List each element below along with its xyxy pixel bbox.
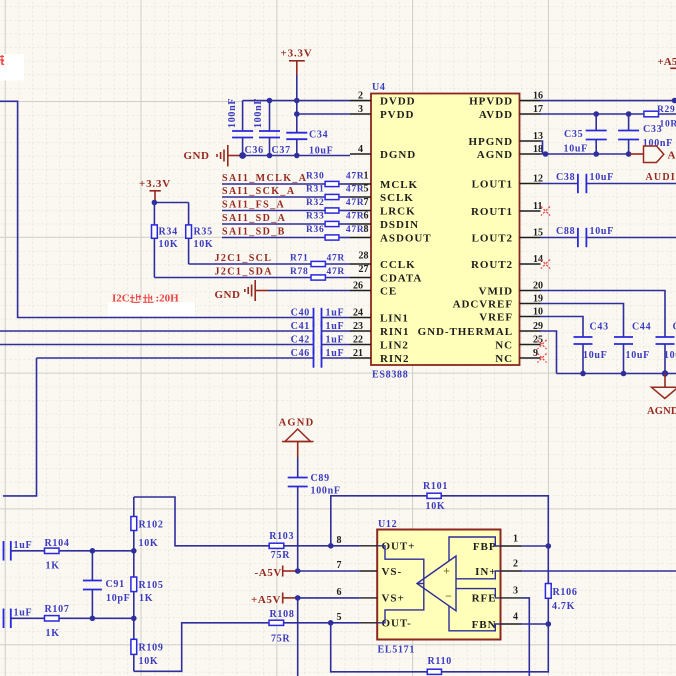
- svg-text:1K: 1K: [139, 593, 153, 604]
- svg-text:C34: C34: [309, 129, 328, 140]
- resistor R110: [331, 623, 549, 675]
- svg-text:R110: R110: [428, 656, 452, 667]
- svg-text:EL5171: EL5171: [378, 644, 416, 655]
- svg-text:1: 1: [513, 534, 518, 545]
- svg-text:R105: R105: [139, 580, 164, 591]
- svg-text:75R: 75R: [271, 633, 290, 644]
- svg-text:C4: C4: [673, 322, 676, 333]
- pin 18 AGND: [477, 144, 543, 161]
- svg-text:MCLK: MCLK: [380, 179, 418, 191]
- svg-text:1uF: 1uF: [326, 321, 345, 332]
- svg-text:47R: 47R: [327, 254, 345, 264]
- pin 23 RIN1: [350, 321, 409, 338]
- svg-text:SAI1_SD_A: SAI1_SD_A: [222, 213, 286, 224]
- svg-text:C42: C42: [291, 335, 310, 346]
- wire to AGND port: [630, 153, 644, 155]
- svg-text:SAI1_MCLK_A: SAI1_MCLK_A: [222, 173, 307, 184]
- svg-text:RFE: RFE: [472, 593, 497, 605]
- svg-text:C41: C41: [291, 321, 310, 332]
- svg-text:+3.3V: +3.3V: [139, 178, 171, 190]
- pin 20 VMID: [479, 280, 543, 297]
- svg-text:R106: R106: [553, 587, 578, 598]
- svg-text:20: 20: [533, 280, 543, 291]
- svg-text:22: 22: [353, 334, 363, 345]
- svg-text:U12: U12: [378, 519, 397, 530]
- resistor R107 1K: [45, 604, 134, 639]
- pin 19 ADCVREF: [453, 293, 543, 310]
- pin 13 HPGND: [469, 131, 543, 148]
- power port +A5V (clipped): [658, 56, 676, 69]
- svg-text:1K: 1K: [46, 628, 60, 639]
- svg-text:R107: R107: [45, 604, 70, 615]
- svg-text:LRCK: LRCK: [380, 205, 416, 217]
- svg-text:10K: 10K: [194, 239, 214, 250]
- pin 1 MCLK: [350, 171, 418, 191]
- svg-text:17: 17: [533, 104, 543, 115]
- svg-text:R109: R109: [139, 642, 164, 653]
- svg-text:HPGND: HPGND: [469, 136, 513, 148]
- svg-text:LIN1: LIN1: [380, 312, 409, 324]
- svg-text:R103: R103: [269, 531, 294, 542]
- resistor R102 10K: [131, 497, 164, 551]
- svg-text:VMID: VMID: [479, 285, 513, 297]
- svg-text:10K: 10K: [426, 501, 446, 512]
- capacitor C34: [286, 129, 333, 156]
- pin 26 CE: [350, 280, 397, 297]
- wire: [222, 196, 350, 198]
- svg-text:ES8388: ES8388: [372, 370, 408, 381]
- wire VS+: [298, 597, 360, 599]
- pin 29 GND-THERMAL: [418, 321, 543, 338]
- junction: [593, 111, 631, 117]
- svg-text::20H: :20H: [156, 293, 180, 305]
- capacitor C36: [227, 98, 264, 156]
- pin 4 FBN: [472, 612, 522, 631]
- svg-text:SCLK: SCLK: [380, 192, 414, 204]
- svg-text:VREF: VREF: [479, 311, 513, 323]
- svg-text:C33: C33: [643, 124, 662, 135]
- wire: [222, 223, 350, 225]
- U12 internal wiring: [377, 537, 500, 631]
- svg-text:+: +: [443, 564, 450, 578]
- svg-text:10uF: 10uF: [664, 350, 676, 361]
- svg-text:1uF: 1uF: [14, 540, 33, 551]
- pin 7 VS-: [337, 560, 403, 578]
- svg-text:13: 13: [533, 131, 543, 142]
- capacitor C41 1uF: [291, 321, 350, 341]
- pin 6 DSDIN: [350, 211, 419, 231]
- svg-text:R108: R108: [270, 609, 295, 620]
- wire: [222, 183, 350, 185]
- svg-text:10pF: 10pF: [106, 593, 130, 604]
- pin 5 SCLK: [350, 184, 414, 204]
- power port +A5V: [251, 593, 298, 606]
- svg-text:R34: R34: [159, 227, 178, 238]
- svg-text:47R: 47R: [327, 267, 345, 277]
- pin 2 IN+: [475, 559, 521, 578]
- capacitor C37: [253, 98, 291, 156]
- svg-text:1uF: 1uF: [14, 608, 33, 619]
- resistor R106 4.7K: [545, 546, 577, 624]
- svg-text:RIN1: RIN1: [380, 326, 409, 338]
- net label J2C1_SDA: [215, 267, 273, 278]
- svg-text:15: 15: [533, 227, 543, 238]
- capacitor C43 10uF: [574, 322, 609, 374]
- svg-text:C88: C88: [556, 226, 575, 237]
- svg-text:R35: R35: [194, 227, 213, 238]
- wire: [154, 202, 188, 204]
- wire LOUT2: [541, 237, 578, 239]
- junction: [90, 616, 137, 622]
- resistor R33 47R: [306, 212, 364, 227]
- svg-text:C89: C89: [311, 473, 330, 484]
- svg-text:12: 12: [533, 173, 543, 184]
- svg-text:AGND: AGND: [647, 406, 676, 417]
- svg-text:DSDIN: DSDIN: [380, 219, 419, 231]
- svg-text:GND: GND: [184, 150, 210, 162]
- svg-text:J2C1_SCL: J2C1_SCL: [215, 253, 273, 264]
- capacitor C89 100nF: [288, 473, 341, 571]
- svg-text:16: 16: [533, 90, 543, 101]
- svg-text:NC: NC: [495, 339, 513, 351]
- svg-text:C43: C43: [590, 322, 609, 333]
- svg-text:C35: C35: [564, 129, 583, 140]
- junction: [328, 543, 334, 549]
- svg-text:1uF: 1uF: [326, 308, 345, 319]
- svg-text:CE: CE: [380, 285, 397, 297]
- pin 22 LIN2: [350, 334, 409, 351]
- wire PVDD: [297, 113, 350, 115]
- ground AGND (down): [647, 374, 676, 418]
- svg-text:LOUT1: LOUT1: [472, 178, 513, 190]
- resistor R32 47R: [306, 198, 364, 213]
- junction: [152, 200, 158, 206]
- wire RIN2: [37, 357, 314, 359]
- wire RFE: [522, 598, 530, 676]
- wire VS-: [298, 570, 360, 572]
- net label SAI1_SD_A: [222, 213, 286, 224]
- port AGND: [644, 146, 676, 163]
- svg-text:27: 27: [359, 264, 369, 275]
- svg-text:C44: C44: [632, 322, 651, 333]
- wire LOUT1: [541, 183, 578, 185]
- svg-text:R102: R102: [139, 520, 164, 531]
- svg-text:SAI1_FS_A: SAI1_FS_A: [222, 199, 285, 210]
- resistor R71 47R: [290, 254, 345, 267]
- svg-text:SAI1_SCK_A: SAI1_SCK_A: [222, 186, 295, 197]
- resistor R78 47R: [290, 267, 345, 280]
- svg-text:AGND: AGND: [477, 149, 513, 161]
- svg-text:+A5V: +A5V: [658, 56, 676, 68]
- svg-text:C46: C46: [291, 348, 310, 359]
- svg-text:R78: R78: [290, 267, 308, 277]
- wire CE: [268, 290, 350, 292]
- svg-text:PVDD: PVDD: [380, 109, 414, 121]
- junction: [580, 370, 668, 376]
- svg-text:7: 7: [337, 560, 342, 571]
- net label SAI1_SCK_A: [222, 186, 295, 197]
- resistor R108 75R: [269, 609, 295, 644]
- svg-text:LOUT2: LOUT2: [472, 232, 513, 244]
- svg-text:100nF: 100nF: [253, 98, 264, 128]
- svg-text:R30: R30: [306, 172, 324, 182]
- capacitor C44 10uF: [614, 322, 651, 374]
- svg-text:47R: 47R: [346, 225, 364, 235]
- svg-text:RIN2: RIN2: [380, 353, 409, 365]
- svg-text:ADCVREF: ADCVREF: [453, 298, 513, 310]
- resistor R29 10R: [644, 105, 676, 130]
- svg-text:AUDIO_OU: AUDIO_OU: [646, 172, 676, 183]
- svg-text:FBN: FBN: [472, 619, 497, 631]
- capacitor 1uF (clipped, bottom): [4, 608, 45, 628]
- resistor R35 10K: [186, 203, 214, 265]
- junction: [543, 151, 632, 157]
- IC U4 ES8388 body: [371, 82, 520, 381]
- junction: [328, 620, 334, 626]
- svg-text:24: 24: [353, 307, 363, 318]
- wire HPGND join: [541, 141, 543, 154]
- svg-text:DGND: DGND: [380, 149, 416, 161]
- svg-text:AGND: AGND: [668, 150, 676, 162]
- svg-text:+A5V: +A5V: [251, 594, 281, 606]
- pin 3 PVDD: [350, 104, 414, 121]
- svg-text:28: 28: [359, 251, 369, 262]
- pin 14 ROUT2: [471, 254, 543, 271]
- pin 9 NC: [495, 348, 540, 365]
- ground GND (CE): [215, 280, 269, 301]
- wire +A5V column: [297, 598, 299, 676]
- resistor R34 10K: [152, 203, 179, 278]
- capacitor C88 10uF: [556, 226, 676, 247]
- svg-text:FBP: FBP: [473, 541, 497, 553]
- pin 2 DVDD: [350, 90, 416, 107]
- wire J2C1_SDA: [154, 277, 350, 279]
- IC U12 EL5171 body: [377, 519, 500, 656]
- svg-text:R32: R32: [306, 198, 324, 208]
- wire VREF: [541, 317, 584, 338]
- capacitor C40 1uF: [291, 308, 350, 328]
- svg-text:47R: 47R: [346, 172, 364, 182]
- wire LIN1 from edge: [0, 101, 314, 317]
- svg-text:21: 21: [353, 348, 363, 359]
- svg-text:10K: 10K: [159, 239, 179, 250]
- wire FBP: [522, 545, 549, 547]
- ground AGND (up): [279, 417, 315, 457]
- wire: [222, 237, 350, 239]
- svg-text:SAI1_SD_B: SAI1_SD_B: [222, 226, 286, 237]
- op-amp triangle: [417, 556, 456, 611]
- no-connect NC 25: [537, 340, 546, 349]
- wire J2C1_SCL: [189, 263, 350, 265]
- svg-text:10uF: 10uF: [626, 350, 650, 361]
- svg-text:AVDD: AVDD: [479, 109, 513, 121]
- svg-text:8: 8: [337, 535, 342, 546]
- svg-text:4: 4: [513, 612, 518, 623]
- svg-text:10K: 10K: [139, 538, 159, 549]
- capacitor C35 10uF: [564, 114, 607, 155]
- svg-text:CDATA: CDATA: [380, 272, 422, 284]
- resistor R36 47R: [306, 225, 364, 240]
- svg-text:75R: 75R: [271, 550, 290, 561]
- wire IN+: [522, 570, 676, 572]
- net label J2C1_SCL: [215, 253, 273, 264]
- svg-text:10uF: 10uF: [590, 172, 614, 183]
- pin 21 RIN2: [350, 348, 409, 365]
- capacitor C33 100nF: [618, 114, 673, 154]
- pin 4 DGND: [350, 144, 416, 161]
- pin 16 HPVDD: [469, 90, 543, 107]
- capacitor 1uF (clipped, top): [4, 540, 45, 560]
- junction: [295, 595, 301, 601]
- svg-text:29: 29: [533, 321, 543, 332]
- net label AUDIO (clipped): [646, 172, 676, 183]
- svg-text:C38: C38: [556, 172, 575, 183]
- pin 6 VS+: [337, 587, 405, 605]
- wire HPVDD: [541, 100, 676, 102]
- svg-text:IN+: IN+: [475, 566, 496, 578]
- power port -A5V: [255, 566, 298, 579]
- resistor R105 1K: [131, 551, 164, 619]
- svg-text:R36: R36: [306, 225, 324, 235]
- wire OUT- net: [134, 623, 360, 672]
- no-connect ROUT2: [541, 259, 550, 268]
- svg-text:R101: R101: [423, 481, 448, 492]
- svg-text:100nF: 100nF: [311, 486, 341, 497]
- wire AGND rail 2: [557, 373, 676, 375]
- svg-text:−: −: [445, 589, 452, 603]
- capacitor C91 10pF: [83, 551, 131, 619]
- svg-text:C37: C37: [272, 145, 291, 156]
- junction: [267, 98, 300, 104]
- svg-text:R29: R29: [657, 105, 675, 115]
- svg-text:AGND: AGND: [279, 417, 315, 428]
- svg-text:NC: NC: [495, 353, 513, 365]
- wire RIN1 from edge: [0, 330, 314, 332]
- junction: [546, 621, 552, 627]
- svg-text:10K: 10K: [139, 656, 159, 667]
- svg-text:C40: C40: [291, 308, 310, 319]
- wire: [297, 458, 299, 478]
- pin 8 OUT+: [337, 535, 416, 553]
- junction: [672, 98, 676, 104]
- svg-text:R71: R71: [290, 254, 308, 264]
- net label SAI1_SD_B: [222, 226, 286, 237]
- wire GND-THERMAL: [541, 331, 557, 374]
- svg-text:47R: 47R: [346, 198, 364, 208]
- ground GND (top): [184, 145, 242, 167]
- net label SAI1_MCLK_A: [222, 173, 307, 184]
- wire FBN: [522, 623, 549, 625]
- svg-text:R104: R104: [45, 538, 70, 549]
- svg-text:47R: 47R: [346, 212, 364, 222]
- resistor R104 1K: [45, 538, 134, 572]
- wire LIN2 from edge: [0, 344, 314, 346]
- svg-text:2: 2: [358, 90, 363, 101]
- svg-text:23: 23: [353, 321, 363, 332]
- svg-text:18: 18: [533, 144, 543, 155]
- wire ADCVREF: [541, 304, 624, 338]
- svg-text:C36: C36: [245, 145, 264, 156]
- resistor R30 47R: [306, 172, 364, 187]
- svg-text:9: 9: [533, 348, 538, 359]
- svg-text:2: 2: [513, 559, 518, 570]
- svg-text:ROUT1: ROUT1: [471, 206, 513, 218]
- pin 3 RFE: [472, 585, 522, 604]
- svg-text:10uF: 10uF: [564, 144, 588, 155]
- svg-text:J2C1_SDA: J2C1_SDA: [215, 267, 273, 278]
- svg-text:OUT+: OUT+: [382, 541, 416, 553]
- no-connect ROUT1: [541, 206, 550, 215]
- wire VMID: [541, 291, 666, 338]
- wire +3.3V stem: [296, 75, 298, 133]
- pin 15 LOUT2: [472, 227, 543, 244]
- net label SAI1_FS_A: [222, 199, 285, 210]
- resistor R103 75R: [269, 531, 294, 561]
- svg-text:DVDD: DVDD: [380, 95, 416, 107]
- pin 10 VREF: [479, 306, 543, 323]
- junction: [239, 152, 299, 159]
- svg-text:I2C: I2C: [112, 293, 130, 305]
- svg-text:ROUT2: ROUT2: [471, 259, 513, 271]
- svg-text:4.7K: 4.7K: [552, 601, 575, 612]
- resistor R109 10K: [131, 618, 164, 671]
- svg-text:+3.3V: +3.3V: [281, 48, 313, 60]
- pin 17 AVDD: [479, 104, 543, 121]
- svg-text:10: 10: [533, 306, 543, 317]
- svg-text:6: 6: [337, 587, 342, 598]
- svg-text:1K: 1K: [46, 560, 60, 571]
- wire: [222, 210, 350, 212]
- capacitor C38 10uF: [556, 172, 676, 193]
- svg-text:1uF: 1uF: [326, 335, 345, 346]
- wire AVDD: [541, 113, 644, 115]
- pin 5 OUT-: [337, 612, 412, 630]
- junction: [90, 548, 137, 554]
- svg-text:19: 19: [533, 293, 543, 304]
- svg-text:LIN2: LIN2: [380, 339, 409, 351]
- power port +3.3V (left): [139, 178, 171, 201]
- svg-text:OUT-: OUT-: [382, 618, 412, 630]
- svg-text:47R: 47R: [346, 185, 364, 195]
- svg-text:U4: U4: [372, 82, 386, 93]
- pin 28 CCLK: [350, 251, 416, 271]
- resistor R101 10K: [331, 481, 549, 546]
- svg-text:VS+: VS+: [382, 593, 405, 605]
- junction: [295, 568, 301, 574]
- pin 1 FBP: [473, 534, 522, 553]
- svg-text:R33: R33: [306, 212, 324, 222]
- svg-text:10uF: 10uF: [583, 350, 607, 361]
- junction: [294, 111, 300, 117]
- capacitor C42 1uF: [291, 335, 350, 355]
- wire DVDD rail: [243, 100, 350, 102]
- capacitor C46 1uF: [291, 348, 350, 368]
- svg-text:C91: C91: [106, 579, 125, 590]
- junction: [546, 543, 552, 549]
- text I2C address note: [108, 293, 195, 317]
- svg-text:-A5V: -A5V: [255, 567, 282, 579]
- pin 8 ASDOUT: [350, 224, 432, 244]
- pin 24 LIN1: [350, 307, 409, 324]
- capacitor C45 10uF (clipped): [656, 322, 676, 374]
- svg-text:ASDOUT: ASDOUT: [380, 232, 432, 244]
- svg-text:3: 3: [358, 104, 363, 115]
- svg-text:HPVDD: HPVDD: [469, 95, 513, 107]
- svg-text:100nF: 100nF: [227, 98, 238, 128]
- svg-text:4: 4: [358, 144, 363, 155]
- pin 27 CDATA: [350, 264, 422, 284]
- svg-text:R31: R31: [306, 185, 324, 195]
